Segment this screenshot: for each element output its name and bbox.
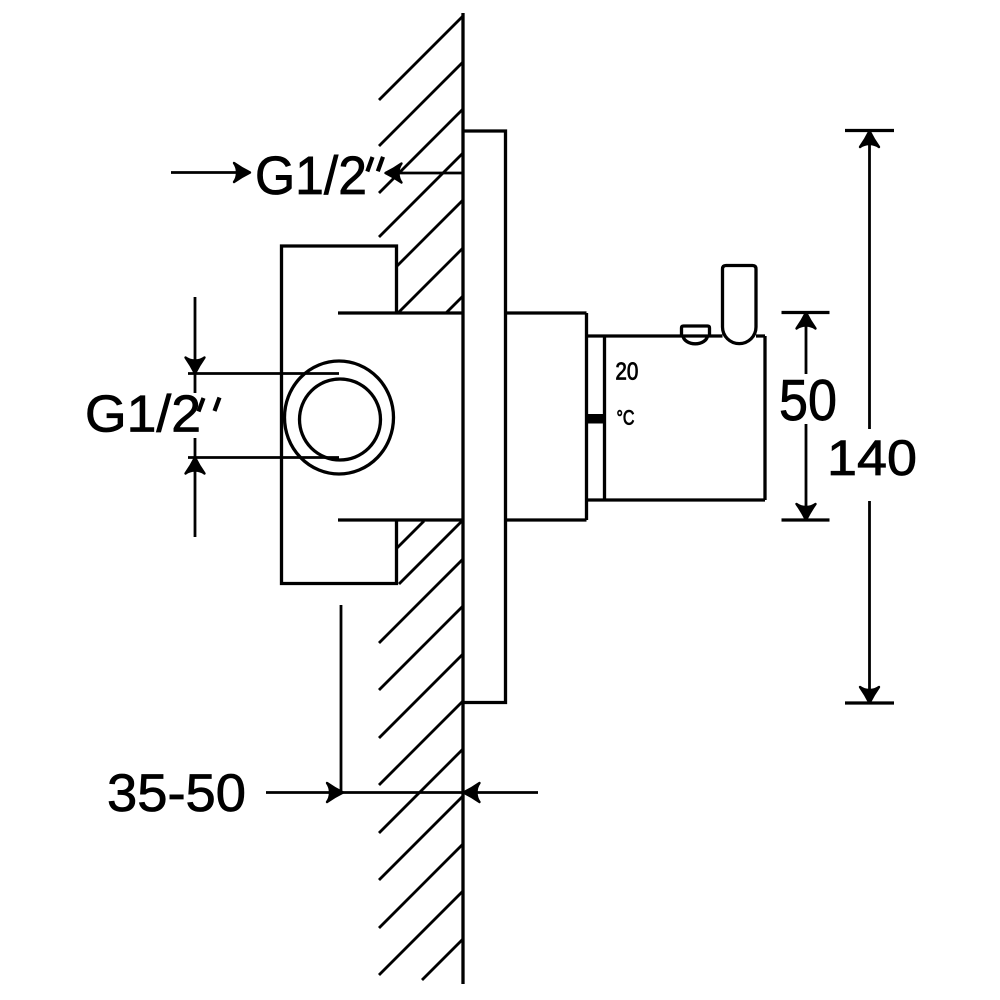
140 dimension line segments: [868, 131, 871, 703]
50 arrowhead up: [797, 313, 816, 329]
140 dimension top tick: [845, 129, 894, 132]
temperature index black mark: [586, 414, 605, 424]
svg-text:35-50: 35-50: [107, 764, 246, 823]
cartridge right edge and bottom: [587, 336, 766, 500]
spigot top line: [338, 311, 587, 314]
wall surface line: [461, 13, 464, 984]
left G1/2 dimension line lower segment: [194, 438, 197, 537]
50 arrowhead down: [797, 504, 816, 520]
svg-text:20: 20: [615, 359, 638, 386]
140 arrowhead down: [860, 687, 879, 703]
wall hatching between spigot and body bottom: [397, 521, 462, 584]
35-50 arrowhead right: [327, 783, 343, 802]
arrowhead down: [186, 358, 205, 374]
35-50 dimension line: [266, 791, 462, 794]
35-50 tail line: [464, 791, 539, 794]
140 arrowhead up: [860, 131, 879, 147]
inlet arrowhead: [234, 163, 250, 182]
wall hatching upper band: [379, 16, 463, 313]
leader line to wall: [387, 172, 462, 175]
svg-text:G1/2: G1/2: [85, 386, 201, 444]
wall hatching lower band: [379, 559, 463, 980]
extension line to thread bottom: [188, 456, 339, 459]
35-50 arrowhead left at wall: [464, 783, 480, 802]
inlet arrow line: [171, 171, 236, 174]
spigot end cap: [585, 313, 588, 520]
small button dome on cartridge top: [683, 336, 708, 344]
svg-text:G1/2: G1/2: [255, 146, 367, 206]
svg-text:50: 50: [779, 368, 837, 433]
small button cap: [682, 326, 710, 336]
svg-text:140: 140: [827, 430, 917, 486]
50 dimension top tick: [782, 311, 830, 314]
140 dimension bottom tick: [845, 701, 894, 704]
outlet port inner thread circle: [300, 379, 381, 460]
left G1/2 prime marks: [199, 398, 220, 412]
arrowhead up: [186, 458, 205, 474]
50 dimension line segments: [805, 313, 808, 521]
50 dimension bottom tick: [782, 518, 830, 521]
cartridge top line segments: [605, 334, 766, 337]
svg-text:°C: °C: [617, 407, 635, 430]
valve body (rough-in box behind wall): [282, 246, 397, 584]
left G1/2 dimension line upper segment: [194, 297, 197, 393]
outlet port outer circle: [285, 361, 394, 474]
faceplate (escutcheon): [463, 131, 506, 703]
extension line to thread top: [188, 372, 339, 375]
top G1/2 prime marks: [367, 157, 383, 172]
leader arrowhead pointing left: [386, 164, 402, 183]
handle lever: [723, 266, 757, 344]
temperature scale ring strip: [587, 336, 605, 500]
35-50 extension line: [340, 605, 343, 793]
spigot bottom line: [338, 518, 587, 521]
